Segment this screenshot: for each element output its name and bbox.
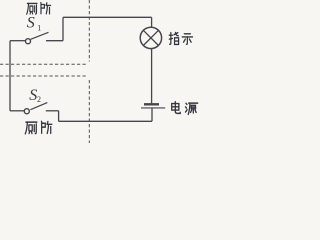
svg-text:2: 2 [37,95,41,104]
svg-text:1: 1 [37,24,41,33]
svg-text:S: S [27,14,35,31]
svg-text:S: S [29,87,37,104]
